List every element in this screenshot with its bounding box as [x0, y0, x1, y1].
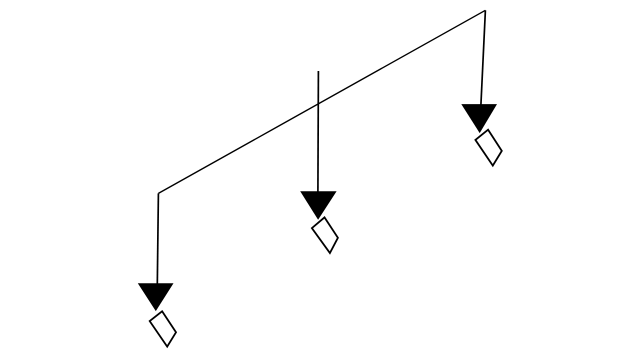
- wire: right vertical drop: [481, 10, 486, 105]
- wire: middle vertical drop: [317, 71, 320, 193]
- tag right: small rotated rectangle: [475, 130, 501, 166]
- wire: left vertical drop: [157, 193, 158, 285]
- arrowhead left: [138, 283, 174, 311]
- arrowhead middle: [300, 191, 336, 220]
- wire: diagonal connector from top-right corner to left corner: [158, 10, 485, 193]
- tag left: small rotated rectangle: [150, 311, 176, 346]
- arrowhead right: [461, 104, 497, 133]
- tag middle: small rotated rectangle: [312, 217, 338, 253]
